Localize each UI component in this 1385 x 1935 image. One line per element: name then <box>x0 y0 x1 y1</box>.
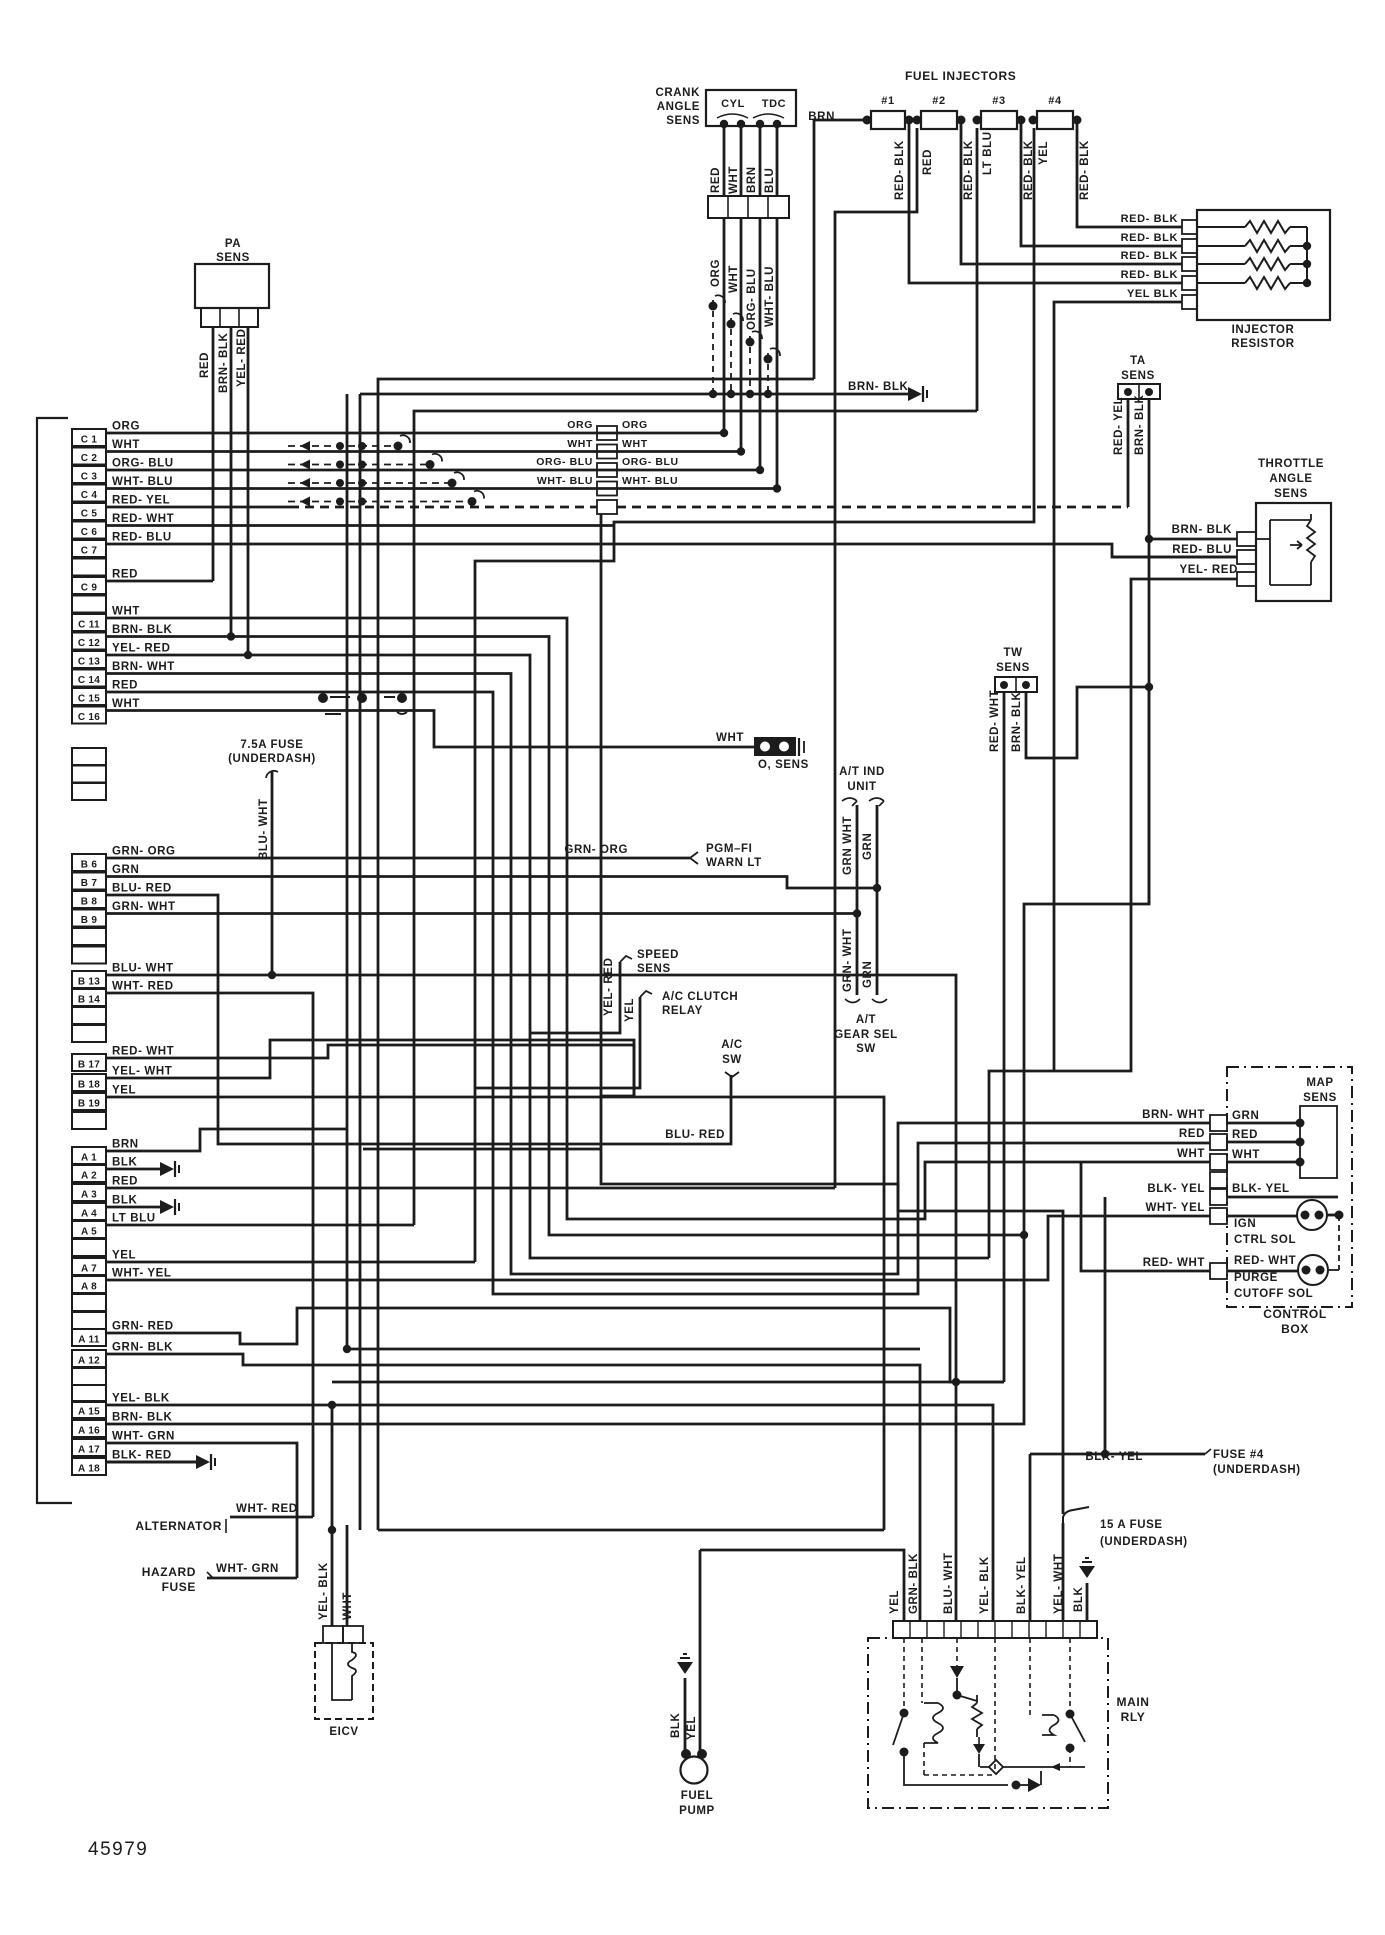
svg-text:SENS: SENS <box>637 963 671 975</box>
svg-text:15 A FUSE: 15 A FUSE <box>1100 1519 1163 1531</box>
wire BLU from TDC pin2 <box>776 124 779 196</box>
svg-text:FUEL INJECTORS: FUEL INJECTORS <box>905 69 1016 83</box>
fuel injector #4 <box>1037 111 1073 129</box>
ECU connector pin box blank pin <box>72 1368 106 1385</box>
svg-text:LT BLU: LT BLU <box>112 1213 156 1225</box>
svg-text:YEL: YEL <box>686 1716 698 1740</box>
wire YEL-RED from PA SENS <box>247 327 250 655</box>
svg-text:C 3: C 3 <box>81 472 98 483</box>
svg-text:BRN- WHT: BRN- WHT <box>112 661 175 673</box>
ground for shield line <box>908 387 922 401</box>
svg-text:A 12: A 12 <box>78 1356 100 1367</box>
wire GRN to MAP <box>1227 1122 1300 1125</box>
resistor element 3 <box>1245 258 1290 270</box>
svg-text:C 14: C 14 <box>78 675 100 686</box>
node shield drains to ground wire <box>709 390 717 398</box>
ECU connector pin box blank pin <box>72 766 106 783</box>
svg-text:WHT- GRN: WHT- GRN <box>216 1563 279 1575</box>
ECU connector pin box B 6 <box>72 854 106 871</box>
relay internals: left coil <box>924 1703 943 1743</box>
svg-text:A/C CLUTCH: A/C CLUTCH <box>662 991 738 1003</box>
resistor element 1 <box>1245 221 1290 233</box>
wire BLK-YEL inside control box <box>1227 1196 1338 1199</box>
svg-text:WHT: WHT <box>567 438 593 450</box>
svg-text:WHT- RED: WHT- RED <box>236 1503 298 1515</box>
svg-text:B 9: B 9 <box>81 915 98 926</box>
svg-text:ORG: ORG <box>112 421 140 433</box>
FUEL PUMP circle <box>681 1757 708 1784</box>
wire relay feed line y1530 <box>378 1529 884 1532</box>
main relay box (dash-dot) <box>868 1638 1108 1808</box>
wire A5 LT BLU to injector 3 riser <box>106 1224 414 1227</box>
svg-text:A 16: A 16 <box>78 1426 100 1437</box>
svg-text:#3: #3 <box>992 95 1005 107</box>
svg-text:TW: TW <box>1003 647 1022 659</box>
wire YEL from injector 4 (left pin) <box>475 128 1034 1262</box>
svg-text:YEL- RED: YEL- RED <box>1180 564 1238 576</box>
svg-text:RED- BLK: RED- BLK <box>1121 269 1178 281</box>
svg-text:SW: SW <box>722 1054 742 1066</box>
svg-text:WHT: WHT <box>112 439 140 451</box>
svg-text:A 8: A 8 <box>81 1282 97 1293</box>
node A15 at YEL-BLK trunk <box>328 1401 336 1409</box>
svg-text:CYL: CYL <box>721 98 745 110</box>
wire BLK relay ground stub <box>1086 1583 1089 1621</box>
THROTTLE ANGLE SENS box <box>1256 503 1331 601</box>
svg-text:YEL: YEL <box>624 998 636 1022</box>
svg-text:C 1: C 1 <box>81 435 98 446</box>
ECU connector pin box C 11 <box>72 614 106 631</box>
BRN-BLK sensor-ground trunk to A16 <box>106 687 1149 1424</box>
svg-text:BLK: BLK <box>1073 1586 1085 1612</box>
wire B14 WHT-RED -> alternator riser <box>106 993 313 1517</box>
svg-text:WHT- BLU: WHT- BLU <box>622 475 678 487</box>
relay internals: bottom diode line <box>904 1752 1008 1785</box>
wire YEL-BLK from resistor <box>1054 302 1182 1071</box>
wire LT BLU from injector 3 (left pin) <box>976 128 979 411</box>
svg-text:C 11: C 11 <box>78 620 100 631</box>
svg-text:BRN- BLK: BRN- BLK <box>1172 524 1232 536</box>
svg-text:GRN- RED: GRN- RED <box>112 1321 174 1333</box>
svg-text:WHT: WHT <box>622 438 648 450</box>
wire BLU-RED from A/C SW <box>725 1072 739 1077</box>
svg-text:BLU- RED: BLU- RED <box>665 1129 725 1141</box>
wire RED-BLK from injector 2 <box>961 120 1182 264</box>
svg-text:WARN LT: WARN LT <box>706 857 762 869</box>
ECU connector pin box A 12 <box>72 1350 106 1367</box>
PURGE CUTOFF SOL <box>1298 1255 1328 1285</box>
svg-text:WHT- YEL: WHT- YEL <box>112 1268 172 1280</box>
wire RED-YEL up to TA SENS <box>1127 398 1130 507</box>
wire A4 BLK to ground <box>106 1206 160 1209</box>
node fuse4 <box>1101 1450 1109 1458</box>
svg-text:A 18: A 18 <box>78 1464 100 1475</box>
wire trunk down from shield line <box>359 394 362 1530</box>
svg-text:C 5: C 5 <box>81 509 98 520</box>
svg-text:RED- BLK: RED- BLK <box>894 140 906 200</box>
svg-text:SW: SW <box>856 1043 876 1055</box>
svg-text:GRN- ORG: GRN- ORG <box>564 844 628 856</box>
svg-text:GRN- BLK: GRN- BLK <box>908 1553 920 1614</box>
svg-text:BRN: BRN <box>746 166 758 193</box>
svg-text:SENS: SENS <box>666 115 700 127</box>
node fuse wire joins B13 BLU-WHT <box>268 971 276 979</box>
wire C2 WHT <box>106 450 741 453</box>
wire GRN (A/T IND to gear sel) <box>876 805 879 995</box>
svg-text:A 17: A 17 <box>78 1445 100 1456</box>
ECU connector pin box C 4 <box>72 485 106 502</box>
wire A12 GRN-BLK to main relay <box>106 1354 920 1621</box>
wire C14 BRN-WHT -> MAP GRN feed <box>106 674 1210 1275</box>
wire RED-BLK from injector 1 <box>909 120 1182 283</box>
wire A18 BLK-RED to ground <box>106 1461 196 1464</box>
svg-text:RED: RED <box>199 352 211 378</box>
wire GRN-WHT (A/T IND to gear sel) <box>856 805 859 995</box>
svg-text:RED- WHT: RED- WHT <box>112 513 174 525</box>
wire RED-WHT riser to control box <box>1081 1162 1210 1271</box>
svg-text:(UNDERDASH): (UNDERDASH) <box>1213 1464 1301 1476</box>
svg-text:#4: #4 <box>1048 95 1062 107</box>
svg-text:SENS: SENS <box>1303 1092 1337 1104</box>
ECU connector pin box C 12 <box>72 633 106 650</box>
relay internals: right coil <box>1042 1715 1059 1735</box>
svg-text:B 7: B 7 <box>81 878 98 889</box>
A/T GEAR SEL SW bracket <box>845 999 887 1003</box>
wire A8 WHT-YEL to control box <box>106 1216 1210 1280</box>
svg-text:ORG- BLU: ORG- BLU <box>622 456 679 468</box>
wire WHT to MAP <box>1227 1161 1300 1164</box>
svg-text:RED: RED <box>922 149 934 175</box>
svg-text:WHT- GRN: WHT- GRN <box>112 1431 175 1443</box>
svg-text:A 2: A 2 <box>81 1171 97 1182</box>
ECU connector pin box blank pin <box>72 1112 106 1129</box>
ECU connector pin box A 2 <box>72 1165 106 1182</box>
fuel injector #2 <box>921 111 957 129</box>
svg-text:FUSE: FUSE <box>162 1580 196 1594</box>
ECU connector pin box A 3 <box>72 1184 106 1201</box>
ECU connector pin box A 16 <box>72 1420 106 1437</box>
svg-text:RED: RED <box>112 680 138 692</box>
solenoid common dash link <box>1338 1215 1340 1270</box>
node: BRN-BLK joins C12 wire <box>227 632 235 640</box>
wire C13 YEL-RED -> throttle YEL-RED riser <box>106 655 989 1258</box>
svg-text:A 5: A 5 <box>81 1227 97 1238</box>
svg-text:THROTTLE: THROTTLE <box>1258 458 1324 470</box>
ECU connector pin box blank pin <box>72 947 106 964</box>
fuel pump ground <box>684 1678 687 1752</box>
svg-text:SENS: SENS <box>996 662 1030 674</box>
ECU connector pin box C 2 <box>72 448 106 465</box>
wire B6 GRN-ORG -> PGM-FI WARN LT <box>106 857 690 860</box>
ECU connector pin box C 13 <box>72 651 106 668</box>
wire BLK-YEL down to relay <box>1029 1454 1032 1621</box>
svg-text:YEL: YEL <box>889 1590 901 1614</box>
node C12 joins BRN-BLK trunk <box>1020 1231 1028 1239</box>
svg-text:BRN- BLK: BRN- BLK <box>112 1412 172 1424</box>
svg-text:YEL- BLK: YEL- BLK <box>318 1562 330 1620</box>
ECU connector pin box C 6 <box>72 522 106 539</box>
svg-text:BLU- RED: BLU- RED <box>112 883 172 895</box>
svg-text:CRANK: CRANK <box>655 87 700 99</box>
svg-text:C 16: C 16 <box>78 712 100 723</box>
svg-text:IGN: IGN <box>1234 1218 1256 1230</box>
svg-text:O, SENS: O, SENS <box>758 759 809 771</box>
wire BRN-BLK from TW SENS <box>1026 687 1149 758</box>
ECU connector pin box C 5 <box>72 503 106 520</box>
svg-text:RED- BLK: RED- BLK <box>1121 213 1178 225</box>
svg-text:MAIN: MAIN <box>1116 1695 1149 1709</box>
node GRN-WHT joins A/T IND <box>853 909 861 917</box>
wire RED from PA SENS <box>212 327 215 581</box>
ECU connector pin box blank pin <box>72 1007 106 1024</box>
ECU connector pin box A 11 <box>72 1329 106 1346</box>
wire B17 RED-WHT <box>106 1045 634 1096</box>
wire C5 RED-YEL dashed to TA SENS <box>290 506 597 509</box>
svg-text:BRN- BLK: BRN- BLK <box>848 381 908 393</box>
svg-text:FUEL: FUEL <box>681 1790 713 1802</box>
ECU connector pin box C 16 <box>72 707 106 724</box>
svg-text:WHT: WHT <box>716 732 744 744</box>
svg-text:BRN- BLK: BRN- BLK <box>1011 692 1023 752</box>
relay internals: diode top <box>956 1638 958 1666</box>
svg-text:YEL: YEL <box>1038 141 1050 165</box>
wire C9 RED to PA SENS <box>106 580 213 583</box>
svg-text:RED- BLU: RED- BLU <box>1172 544 1232 556</box>
svg-text:BRN- BLK: BRN- BLK <box>112 624 172 636</box>
wire ORG-BLU below inline connector <box>759 218 762 470</box>
svg-text:C 4: C 4 <box>81 490 98 501</box>
ECU connector pin box B 18 <box>72 1074 106 1091</box>
svg-text:YEL- RED: YEL- RED <box>236 329 248 387</box>
relay internals: diode small <box>973 1744 985 1754</box>
svg-text:WHT: WHT <box>1177 1148 1205 1160</box>
ECU connector pin box C 9 <box>72 577 106 594</box>
svg-text:FUSE #4: FUSE #4 <box>1213 1449 1264 1461</box>
svg-text:ORG: ORG <box>622 419 648 431</box>
wire A15 YEL-BLK -> main relay <box>106 1405 993 1621</box>
svg-text:WHT: WHT <box>1232 1149 1260 1161</box>
wire A1 BRN <box>106 1129 347 1151</box>
ECU connector pin box C 14 <box>72 670 106 687</box>
wire WHT below inline connector <box>740 218 743 452</box>
CYL pins <box>720 120 728 128</box>
ECU connector pin box B 9 <box>72 910 106 927</box>
svg-text:GEAR SEL: GEAR SEL <box>834 1029 898 1041</box>
ECU connector pin box blank pin <box>72 748 106 765</box>
svg-text:YEL- RED: YEL- RED <box>603 958 615 1016</box>
TA SENS connector <box>1118 384 1160 399</box>
node YEL-BLK trunk to relay feed line <box>328 1526 336 1534</box>
wire fuel pump YEL down <box>699 1550 702 1752</box>
svg-text:#1: #1 <box>881 95 894 107</box>
throttle potentiometer <box>1269 520 1271 585</box>
svg-text:A 4: A 4 <box>81 1209 97 1220</box>
svg-text:WHT: WHT <box>112 606 140 618</box>
svg-text:BLK- YEL: BLK- YEL <box>1232 1183 1290 1195</box>
wire C3 ORG-BLU <box>106 469 760 472</box>
ECU connector pin box blank pin <box>72 1239 106 1256</box>
svg-text:BLK- YEL: BLK- YEL <box>1147 1183 1205 1195</box>
wire trunk x347 (A1 BRN to shield ground line) <box>346 394 349 1349</box>
svg-text:A 7: A 7 <box>81 1264 97 1275</box>
svg-text:HAZARD: HAZARD <box>142 1565 196 1579</box>
wire A17 WHT-GRN -> hazard fuse <box>106 1443 297 1578</box>
ECU connector pin box blank pin <box>72 1385 106 1402</box>
ECU connector pin box B 19 <box>72 1093 106 1110</box>
wire B13 BLU-WHT -> main relay <box>106 975 956 1621</box>
svg-text:PUMP: PUMP <box>679 1805 715 1817</box>
ECU connector pin box blank pin <box>72 783 106 800</box>
svg-text:WHT- BLU: WHT- BLU <box>764 266 776 327</box>
svg-text:C 7: C 7 <box>81 546 98 557</box>
PA SENS body box <box>195 264 269 308</box>
svg-text:GRN WHT: GRN WHT <box>842 816 854 875</box>
wire trunk x601 <box>600 514 603 1096</box>
ECU connector pin box A 1 <box>72 1147 106 1164</box>
svg-text:RED: RED <box>112 569 138 581</box>
INJECTOR RESISTOR box <box>1197 210 1330 320</box>
svg-text:TDC: TDC <box>762 98 786 110</box>
svg-text:RED- BLK: RED- BLK <box>1121 250 1178 262</box>
svg-text:C 9: C 9 <box>81 583 98 594</box>
svg-text:SENS: SENS <box>1274 488 1308 500</box>
svg-text:PA: PA <box>225 238 241 250</box>
svg-text:A 15: A 15 <box>78 1407 100 1418</box>
node TA BRN-BLK at throttle feed <box>1145 535 1153 543</box>
svg-text:BLK: BLK <box>112 1195 138 1207</box>
svg-text:RED: RED <box>1232 1129 1258 1141</box>
svg-text:WHT: WHT <box>342 1592 354 1620</box>
svg-text:BLK: BLK <box>670 1712 682 1738</box>
shield drain dashed wires with bullet connectors <box>712 300 714 394</box>
svg-text:C 13: C 13 <box>78 657 100 668</box>
svg-text:C 2: C 2 <box>81 453 98 464</box>
ECU connector pin box A 15 <box>72 1401 106 1418</box>
wire WHT-BLU below inline connector <box>776 218 779 489</box>
CRANK ANGLE SENS connector box <box>706 90 796 126</box>
ECU connector pin box C 1 <box>72 429 106 446</box>
svg-text:GRN- WHT: GRN- WHT <box>112 901 176 913</box>
ECU connector pin box C 3 <box>72 466 106 483</box>
relay internals: resistor <box>972 1695 982 1737</box>
svg-text:RLY: RLY <box>1121 1710 1146 1724</box>
svg-text:A/T IND: A/T IND <box>839 766 885 778</box>
node GRN joins A/T IND <box>873 884 881 892</box>
svg-text:GRN: GRN <box>112 864 139 876</box>
ECU connector pin box A 4 <box>72 1203 106 1220</box>
svg-text:BRN- BLK: BRN- BLK <box>1134 395 1146 455</box>
svg-text:RED- WHT: RED- WHT <box>1234 1255 1296 1267</box>
wire WHT into EICV <box>346 1525 349 1626</box>
svg-text:BRN- BLK: BRN- BLK <box>218 333 230 393</box>
svg-text:RED- WHT: RED- WHT <box>989 690 1001 752</box>
svg-text:ANGLE: ANGLE <box>1269 473 1312 485</box>
bullet connectors between C15 and C16 wires <box>318 693 328 703</box>
ECU connector pin box blank pin <box>72 1025 106 1042</box>
svg-text:BLK- YEL: BLK- YEL <box>1016 1556 1028 1614</box>
svg-text:BOX: BOX <box>1281 1322 1309 1336</box>
TW SENS connector <box>995 677 1037 692</box>
svg-text:SPEED: SPEED <box>637 949 679 961</box>
svg-text:BLU- WHT: BLU- WHT <box>943 1552 955 1614</box>
svg-text:B 6: B 6 <box>81 860 98 871</box>
ECU connector pin box blank pin <box>72 1294 106 1311</box>
svg-text:ORG- BLU: ORG- BLU <box>112 458 174 470</box>
svg-text:YEL BLK: YEL BLK <box>1127 288 1178 300</box>
node: crank BLU to C4 WHT-BLU <box>773 484 781 492</box>
ECU connector pin box A 18 <box>72 1458 106 1475</box>
svg-text:C 6: C 6 <box>81 527 98 538</box>
PA SENS connector (3 cells) <box>201 308 258 327</box>
wire YEL-WHT relay pin below 15A fuse <box>1062 1523 1065 1621</box>
svg-text:RED- BLU: RED- BLU <box>112 532 172 544</box>
svg-text:BRN- WHT: BRN- WHT <box>1142 1109 1205 1121</box>
svg-text:WHT- BLU: WHT- BLU <box>537 475 593 487</box>
svg-text:CTRL SOL: CTRL SOL <box>1234 1234 1296 1246</box>
wire RED-BLK from injector 3 <box>1021 120 1182 246</box>
svg-text:BLK- RED: BLK- RED <box>112 1450 172 1462</box>
svg-text:CONTROL: CONTROL <box>1263 1307 1327 1321</box>
svg-text:YEL- BLK: YEL- BLK <box>979 1556 991 1614</box>
svg-text:SENS: SENS <box>1121 370 1155 382</box>
wire long line y1382 <box>332 1381 1004 1384</box>
svg-text:TA: TA <box>1130 355 1146 367</box>
wire B9 GRN-WHT -> A/T IND UNIT <box>106 912 857 915</box>
ECU connector pin box blank pin <box>72 559 106 576</box>
node: crank BRN to C3 ORG-BLU <box>756 466 764 474</box>
EICV body <box>315 1643 373 1719</box>
svg-text:BLK: BLK <box>112 1157 138 1169</box>
node TA BRN-BLK at TW feed <box>1145 683 1153 691</box>
wire A2 BLK to ground <box>106 1168 160 1171</box>
svg-text:RED- BLK: RED- BLK <box>1121 232 1178 244</box>
wire A3 RED to injector 2 RED riser <box>106 1187 835 1190</box>
svg-text:A 3: A 3 <box>81 1190 97 1201</box>
svg-text:C 15: C 15 <box>78 694 100 705</box>
wire C16 WHT -> O2 sensor <box>106 711 756 748</box>
inline connector for crank sensor wires (4 cells) <box>708 196 789 218</box>
wire B8 BLU-RED -> A/C SW <box>106 895 731 1144</box>
wire C5 RED-YEL solid part <box>106 506 290 509</box>
dashed shield companions on C2-C5 with bullets <box>288 445 398 447</box>
resistor element 2 <box>1245 240 1290 252</box>
svg-text:RED- YEL: RED- YEL <box>112 495 170 507</box>
wire ORG below inline connector <box>723 218 726 433</box>
control box dashed outline <box>1227 1067 1352 1307</box>
wire RED-WHT from TW SENS down <box>1003 692 1006 1382</box>
IGN CTRL SOL <box>1297 1200 1327 1230</box>
ECU connector pin box B 13 <box>72 971 106 988</box>
svg-text:RED- YEL: RED- YEL <box>1113 397 1125 455</box>
wire: LT BLU trunk line <box>414 411 977 1225</box>
svg-text:INJECTOR: INJECTOR <box>1232 324 1295 336</box>
svg-text:WHT- BLU: WHT- BLU <box>112 476 173 488</box>
ECU connector pin box B 8 <box>72 891 106 908</box>
ECU connector pin box B 7 <box>72 873 106 890</box>
wire BRN-BLK from PA SENS <box>230 327 233 637</box>
relay internals: left switch <box>900 1709 909 1718</box>
svg-text:GRN- BLK: GRN- BLK <box>112 1342 173 1354</box>
O2 SENS symbol <box>755 738 795 755</box>
svg-text:B 8: B 8 <box>81 897 98 908</box>
wire C12 BRN-BLK -> sensor ground trunk <box>106 637 1024 1236</box>
wire A7 YEL to injector 4 YEL riser <box>106 1261 475 1264</box>
svg-text:ORG: ORG <box>567 419 593 431</box>
wire YEL relay/fuel pump feed <box>700 1550 904 1621</box>
svg-text:BLU- WHT: BLU- WHT <box>258 798 270 860</box>
svg-text:WHT- RED: WHT- RED <box>112 981 174 993</box>
wire C4 WHT-BLU <box>106 487 777 490</box>
